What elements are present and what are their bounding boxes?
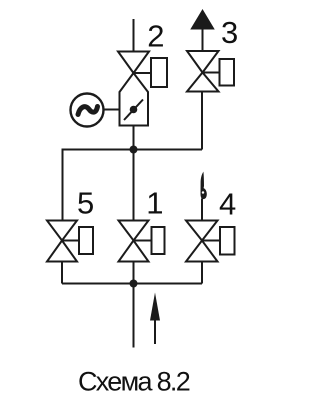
- actuator link valve 3: [202, 72, 220, 74]
- svg-text:1: 1: [146, 186, 163, 221]
- vent arrow above valve 3: [192, 11, 213, 29]
- valve V5 (bowtie): [47, 221, 77, 241]
- burner flame above valve 4: [201, 172, 207, 200]
- regulator body (pentagon) under valve 2: [120, 73, 149, 126]
- actuator link valve 1: [134, 240, 152, 242]
- wire: circle to regulator: [104, 109, 120, 111]
- junction node (upper): [130, 146, 138, 154]
- svg-text:2: 2: [147, 18, 164, 53]
- valve V2 (solenoid valve, bowtie top half): [118, 52, 149, 74]
- valve V3 (bowtie): [187, 51, 219, 73]
- svg-text:3: 3: [221, 15, 238, 50]
- svg-text:5: 5: [77, 186, 94, 221]
- actuator rect valve 2: [151, 58, 167, 87]
- valve V4 (bowtie): [186, 221, 218, 241]
- actuator rect valve 5: [79, 227, 93, 254]
- actuator rect valve 1: [152, 227, 165, 254]
- wire: flame to valve 4: [201, 199, 203, 220]
- wire: gas inlet main: [133, 284, 135, 348]
- actuator rect valve 4: [220, 227, 235, 255]
- wire: valve 3 down to manifold: [201, 92, 203, 150]
- junction node (bottom): [130, 280, 138, 288]
- tilde inside circle: [78, 107, 98, 115]
- alarm device (circle with tilde): [71, 94, 104, 127]
- wire: vent shaft: [202, 27, 204, 51]
- wire: valve 1 down: [133, 262, 135, 284]
- flow direction arrow: [154, 318, 156, 344]
- svg-text:Схема 8.2: Схема 8.2: [78, 367, 190, 397]
- actuator link valve 4: [202, 240, 220, 242]
- wire: valve 2 inlet: [133, 19, 135, 52]
- wire: valve 5 down: [61, 262, 63, 284]
- regulator stem (diagonal with dot): [124, 100, 143, 121]
- wire: valve 4 down: [201, 262, 203, 284]
- actuator link valve 2: [134, 72, 152, 74]
- svg-text:4: 4: [219, 187, 236, 222]
- actuator rect valve 3: [220, 59, 235, 86]
- bottom manifold wire: [62, 283, 202, 285]
- wire: regulator down through junction to valve 1: [133, 126, 135, 221]
- upper manifold wire: [63, 150, 203, 221]
- valve V1 (bowtie): [119, 221, 149, 241]
- actuator link valve 5: [62, 240, 79, 242]
